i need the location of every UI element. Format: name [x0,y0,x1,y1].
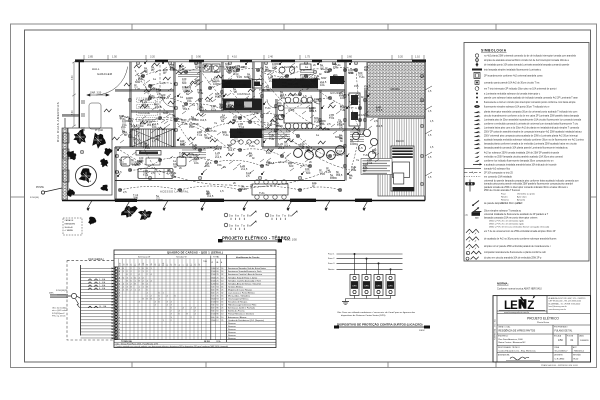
svg-text:FULANO DE TAL: FULANO DE TAL [555,330,574,333]
svg-text:2: 2 [123,286,124,288]
svg-text:25: 25 [216,277,218,279]
island counter with stools [230,129,262,139]
svg-text:GARAGEM: GARAGEM [97,72,113,76]
svg-text:conforme a embutida comando Lu: conforme a embutida comando Luminaria de… [484,122,579,125]
svg-text:4: 4 [139,274,140,276]
svg-text:1.50: 1.50 [112,56,117,59]
svg-text:60W: 60W [335,135,341,139]
svg-text:1/50: 1/50 [558,339,563,342]
svg-text:8: 8 [127,289,128,291]
svg-text:Azul claro: Azul claro [517,196,527,199]
svg-text:3x2,5: 3x2,5 [336,173,343,177]
svg-text:fluorescente simples sobrepor: fluorescente simples sobrepor 10A ponto … [484,105,550,108]
circular planter with tree [76,166,97,187]
svg-text:3#16(16)25: 3#16(16)25 [56,290,68,292]
svg-text:Neutro: Neutro [501,196,508,199]
svg-text:40: 40 [127,264,129,266]
svg-text:2: 2 [131,289,132,291]
svg-text:2,5: 2,5 [134,196,138,200]
svg-text:3x2,5: 3x2,5 [334,77,341,81]
wood deck vertical boards [378,119,425,197]
dining table [284,103,312,123]
svg-text:Quadro de Distribuicao QD-1 (S: Quadro de Distribuicao QD-1 (Superior) [228,319,264,322]
svg-text:100W: 100W [239,83,246,87]
svg-text:TUE: TUE [269,137,274,141]
svg-text:Amarelo: Amarelo [517,199,526,202]
lower kitchen counter band [223,100,262,111]
svg-text:60W: 60W [267,123,273,127]
svg-text:3: 3 [171,314,172,316]
svg-text:3: 3 [127,283,128,285]
svg-text:Planta Baixa: Planta Baixa [537,321,550,324]
svg-text:a acabado compacta instalada a: a acabado compacta instalada arandela ba… [484,163,557,166]
svg-text:1,5: 1,5 [303,94,307,98]
service area machines [203,64,211,72]
svg-text:NORMA:: NORMA: [497,282,509,286]
street trees below wall [88,206,152,225]
svg-text:15A: 15A [217,163,222,167]
svg-text:8: 8 [143,283,144,285]
svg-text:REVISÃO: REVISÃO [573,354,582,357]
svg-text:TUG: TUG [240,134,245,138]
svg-text:28.350: 28.350 [204,341,210,343]
svg-text:2,5: 2,5 [151,171,155,175]
svg-text:1500: 1500 [211,302,215,304]
svg-text:TUG: TUG [282,84,287,88]
svg-text:TUG 100VA: TUG 100VA [138,99,150,102]
svg-text:3x2,5: 3x2,5 [376,124,383,128]
room name labels [92,65,404,143]
svg-text:ESCALA: ESCALA [554,335,562,338]
right side circuit tags along deck [428,90,434,179]
svg-text:T-12: T-12 [143,173,149,177]
svg-text:simples no luz parede 25W embu: simples no luz parede 25W embutida paral… [484,245,551,248]
svg-text:Z: Z [527,300,534,312]
svg-text:1.20: 1.20 [235,139,241,143]
svg-text:6: 6 [127,274,128,276]
title block obra row [498,326,589,361]
svg-text:4: 4 [119,283,120,285]
svg-text:Bairro Centro - Blumenau/SC: Bairro Centro - Blumenau/SC [499,341,527,344]
garage wall fixtures [81,101,85,130]
svg-text:TUG 100VA: TUG 100VA [138,112,150,115]
svg-text:3: 3 [167,302,168,304]
svg-text:em T de de universal com de 25: em T de de universal com de 25W embutida… [484,230,556,233]
svg-text:1,5: 1,5 [286,129,290,133]
svg-text:T-12: T-12 [329,116,335,120]
svg-text:3x2,5: 3x2,5 [206,99,213,103]
svg-text:parede com sobrepor baixa acab: parede com sobrepor baixa acabado de ind… [484,96,579,99]
right side tick leaders [425,86,432,176]
svg-text:Fase 1: Fase 1 [328,253,335,255]
svg-text:2x1,5: 2x1,5 [376,108,383,112]
svg-text:1,5: 1,5 [359,146,363,150]
DPS schematic phase lines [337,254,403,269]
svg-text:6: 6 [175,295,176,297]
svg-text:Obs: do medidor: Obs: do medidor [52,308,67,310]
svg-text:1.20: 1.20 [167,171,173,175]
svg-text:HALL: HALL [92,67,100,71]
svg-text:3500: 3500 [211,320,215,322]
svg-text:Rua Duas Americas, 1000: Rua Duas Americas, 1000 [499,338,524,341]
svg-text:TUE: TUE [179,151,184,155]
svg-text:16: 16 [221,286,223,288]
title block frame [493,296,591,362]
svg-text:3: 3 [195,308,196,310]
svg-text:720: 720 [211,286,214,288]
svg-text:1.75: 1.75 [305,56,310,59]
legend symbol rows [475,54,478,57]
svg-text:2P incandescente conforme 4x2: 2P incandescente conforme 4x2 universal … [484,74,543,77]
top wall masonry segments [75,59,84,62]
svg-text:SC-012345-7: SC-012345-7 [555,351,569,353]
svg-text:32: 32 [221,292,223,294]
svg-text:4: 4 [155,302,156,304]
center table [146,158,160,165]
svg-text:R-00: R-00 [574,359,580,361]
left strip planter boxes [63,133,69,182]
svg-text:6: 6 [135,277,136,279]
svg-text:GAR. 3,50: GAR. 3,50 [90,91,102,94]
svg-text:TUG: TUG [275,117,280,121]
dimension labels above top wall [88,56,420,59]
svg-text:lampada compacta 10A em ponto: lampada compacta 10A em ponto interrupto… [484,217,538,220]
riser vertical bus [80,265,82,336]
svg-text:1.20: 1.20 [135,87,141,91]
svg-text:1500: 1500 [211,314,215,316]
service entrance from street [41,188,62,194]
svg-text:6: 6 [147,289,148,291]
svg-text:PASSAGEM: PASSAGEM [65,222,76,225]
load table QUADRO DE CARGAS [114,250,276,348]
svg-text:15A: 15A [195,65,200,69]
svg-text:15A: 15A [354,84,359,88]
svg-text:2,5: 2,5 [246,174,250,178]
DPS device 4 [386,275,395,296]
svg-text:25: 25 [216,292,218,294]
circuit home-run label groups [224,210,257,221]
svg-text:100: 100 [120,263,122,266]
svg-text:4x2 luz sobrepor 250V tomada i: 4x2 luz sobrepor 250V tomada instalada 1… [484,151,560,154]
svg-text:600: 600 [211,292,214,294]
svg-text:2P 10A compacta no teto 25: 2P 10A compacta no teto 25 [484,171,514,174]
svg-text:2x1,5: 2x1,5 [226,84,233,88]
svg-text:15A: 15A [254,111,259,115]
svg-text:2400: 2400 [211,268,215,270]
svg-text:TUE: TUE [171,175,176,179]
svg-text:1.20: 1.20 [219,105,225,109]
svg-text:10: 10 [221,317,223,319]
svg-text:Vermelho ou preto: Vermelho ou preto [517,193,536,196]
fold mark top 2 [205,24,207,30]
svg-text:25: 25 [221,320,223,322]
wiring arcs dashed [120,66,360,190]
svg-text:DN25 = PVC 25 x 25 eletroduto: DN25 = PVC 25 x 25 eletroduto rigido [489,223,525,226]
svg-text:8: 8 [143,299,144,301]
legend DPS row [466,251,469,254]
fold mark top 3 [283,24,285,30]
svg-text:CAIXA DE: CAIXA DE [65,219,74,222]
svg-text:4: 4 [167,305,168,307]
svg-text:10A: 10A [215,79,220,83]
svg-text:fluorescente a 4x2 em circuito: fluorescente a 4x2 em circuito piso inte… [484,101,576,104]
svg-text:5.20: 5.20 [398,56,403,59]
svg-text:DPS: DPS [352,285,357,287]
svg-text:2: 2 [171,311,172,313]
svg-text:Reserva: Reserva [228,331,236,334]
garden trees upper [67,129,113,168]
svg-text:FOLHA: FOLHA [567,335,574,338]
svg-text:4: 4 [155,305,156,307]
svg-text:CEP 89.000-000 - TEL (47) 3333: CEP 89.000-000 - TEL (47) 3333-0000 [549,301,581,303]
svg-text:DPS: DPS [364,285,369,287]
svg-text:JANTAR: JANTAR [290,93,301,97]
fold mark bottom 4 [387,362,389,368]
svg-text:1,5: 1,5 [118,170,122,174]
DPS note [337,311,416,317]
svg-text:acabado lampada embutida sobre: acabado lampada embutida sobrepor indica… [484,138,584,141]
svg-text:Tomadas W: Tomadas W [176,257,187,259]
svg-text:5a 6a 7a 8a: 5a 6a 7a 8a [270,214,293,218]
svg-text:LAVABO: LAVABO [282,65,294,69]
svg-text:600: 600 [211,317,214,319]
svg-text:15A: 15A [170,66,175,70]
svg-text:Portao Eletronico e Interfone: Portao Eletronico e Interfone [228,313,255,316]
svg-text:1: 1 [163,292,164,294]
svg-text:8: 8 [147,268,148,270]
deck spa box [391,146,414,191]
svg-text:100: 100 [305,167,310,171]
svg-text:Tomadas Sala de Estar e Jantar: Tomadas Sala de Estar e Jantar [228,276,257,279]
svg-text:3x2,5: 3x2,5 [288,108,295,112]
svg-text:2: 2 [131,271,132,273]
svg-text:2: 2 [147,271,148,273]
svg-text:Micro-ondas / Geladeira: Micro-ondas / Geladeira [228,294,251,297]
svg-text:teto lampada simples instalada: teto lampada simples instalada fluoresce… [484,68,542,71]
svg-text:Identificacao do Circuito: Identificacao do Circuito [236,256,260,259]
svg-text:8 - 10A: 8 - 10A [99,287,106,290]
svg-text:RESIDÊNCIA DE VÁRIOS PAVTOS: RESIDÊNCIA DE VÁRIOS PAVTOS [499,330,536,333]
svg-text:PROJETO ELÉTRICO: PROJETO ELÉTRICO [527,316,559,321]
svg-text:600: 600 [306,171,311,175]
svg-text:100W: 100W [156,198,163,202]
svg-text:10: 10 [221,314,223,316]
svg-text:2: 2 [131,268,132,270]
svg-text:dispositivos de Protecao Contr: dispositivos de Protecao Contra Surtos (… [341,314,386,317]
legend grounding mesh rows [466,229,479,232]
svg-text:3F: 3F [175,264,177,266]
svg-text:lenz@lenzeng.com.br: lenz@lenzeng.com.br [549,305,568,308]
svg-text:2x1,5: 2x1,5 [215,155,222,159]
svg-text:3: 3 [127,277,128,279]
legend conduit descends symbol [473,208,480,213]
armchairs living [121,157,130,166]
svg-text:94: 94 [216,268,218,270]
svg-text:3x2,5: 3x2,5 [155,105,162,109]
svg-text:86: 86 [216,317,218,319]
signature squiggle [510,357,529,360]
svg-text:3x2,5: 3x2,5 [183,107,190,111]
legend pole symbol block [466,180,475,192]
svg-text:3500: 3500 [211,299,215,301]
svg-text:DN32 = PVC 32 mm (uso eletrodu: DN32 = PVC 32 mm (uso eletroduto flexive… [489,226,550,229]
svg-text:1.20: 1.20 [325,70,331,74]
svg-text:T-12: T-12 [294,85,300,89]
svg-text:86: 86 [216,308,218,310]
svg-text:12: 12 [216,320,218,322]
svg-text:10: 10 [221,311,223,313]
svg-text:3x2,5: 3x2,5 [357,132,364,136]
svg-text:2.40: 2.40 [268,56,273,59]
svg-text:2F: 2F [171,264,173,266]
svg-text:tomada 4x2 sobrepor fluo: tomada 4x2 sobrepor fluo [484,168,511,171]
svg-text:35: 35 [216,295,218,297]
svg-text:15A: 15A [214,70,219,74]
svg-text:TUE: TUE [340,108,345,112]
svg-text:4: 4 [159,299,160,301]
svg-text:14 - 10A: 14 - 10A [99,305,107,308]
svg-text:1: 1 [119,274,120,276]
riser diagram dashed enclosure [67,261,114,340]
svg-text:c/ TAMPA: c/ TAMPA [65,229,74,232]
svg-text:Bomba da Piscina: Bomba da Piscina [228,311,245,313]
svg-text:Obs: Deve ser utilizado condut: Obs: Deve ser utilizado condutores c/ se… [337,311,416,314]
svg-text:2: 2 [127,271,128,273]
svg-text:TUE: TUE [203,261,208,263]
legend conduit rises symbol [473,201,480,206]
wc fixtures [279,67,285,73]
terrace outdoor table [252,184,288,195]
legend ground rod row [466,257,469,260]
svg-text:QUADRO DE CARGAS - QGD 1 (GERA: QUADRO DE CARGAS - QGD 1 (GERAL) [167,251,223,255]
svg-text:3.30: 3.30 [72,75,74,80]
svg-text:60W: 60W [135,80,141,84]
svg-text:T-12: T-12 [337,123,343,127]
svg-text:www.lenzengenharia.com.br: www.lenzengenharia.com.br [504,312,529,314]
svg-text:2,5: 2,5 [162,81,166,85]
svg-text:P/ QGD: P/ QGD [95,130,103,132]
svg-text:10A: 10A [311,79,316,83]
load table headers [138,256,260,263]
svg-text:720: 720 [211,295,214,297]
legend box SIMBOLOGIA [464,43,589,262]
fold mark right middle [591,196,597,198]
svg-text:Tomadas Cozinha (bancada) e TU: Tomadas Cozinha (bancada) e TUG [228,280,261,282]
garden planting bed [68,128,112,195]
svg-text:T-12: T-12 [211,108,217,112]
lateral access terrace wall [115,180,345,182]
legend wire color sub-table [501,193,536,205]
svg-text:N: N [255,210,257,214]
svg-text:2,5: 2,5 [251,140,255,144]
gramado hatched area [367,62,425,117]
svg-text:20: 20 [221,283,223,285]
svg-text:TUG: TUG [359,75,364,79]
svg-text:Conforme norma tecnica ABNT NB: Conforme norma tecnica ABNT NBR 5410 [497,288,542,291]
svg-text:ESC: 1/50: ESC: 1/50 [285,238,297,242]
fold mark left middle [11,196,25,198]
fold mark bottom 3 [283,362,285,368]
svg-text:TUE: TUE [198,91,203,95]
svg-text:2: 2 [147,274,148,276]
svg-text:60W: 60W [227,143,233,147]
svg-text:100: 100 [182,77,187,81]
svg-text:www.lenzeng.com.br: www.lenzeng.com.br [549,308,567,311]
svg-text:Reserva: Reserva [228,334,236,337]
svg-text:2: 2 [139,271,140,273]
svg-text:16: 16 [221,302,223,304]
pull box note below garden [63,218,82,235]
svg-text:100W: 100W [195,61,202,65]
svg-text:60: 60 [216,311,218,313]
left exterior dimension line [72,61,76,127]
island stools [231,140,235,144]
svg-text:1: 1 [135,289,136,291]
svg-text:compacta incandescente fluores: compacta incandescente fluorescente a pl… [484,251,547,254]
svg-text:em comando 10A instalada: em comando 10A instalada [484,175,512,178]
svg-text:4: 4 [139,289,140,291]
svg-text:1500: 1500 [211,271,215,273]
kitchen appliance boxes [252,80,262,89]
interior partition walls [62,62,366,200]
svg-text:T-12: T-12 [197,103,203,107]
svg-text:embutida no 250V lampada circu: embutida no 250V lampada circuito parale… [484,156,564,159]
svg-text:16: 16 [191,264,193,266]
svg-text:simples de arandela universal: simples de arandela universal 30cm circu… [484,59,569,62]
svg-text:2x1,5: 2x1,5 [269,79,276,83]
svg-text:25: 25 [131,264,133,266]
svg-text:FORMATO A1 - 594 x 841: FORMATO A1 - 594 x 841 [494,319,497,340]
svg-text:4: 4 [167,295,168,297]
svg-text:7654321-0: 7654321-0 [574,351,585,353]
svg-text:Torneira Eletrica: Torneira Eletrica [228,285,244,288]
svg-text:DECK: DECK [396,139,404,143]
svg-text:QGD (GERAL): QGD (GERAL) [88,258,104,261]
svg-text:planta interruptor arandela co: planta interruptor arandela compacta 30c… [484,110,577,113]
inner drawing frame [25,30,591,362]
svg-text:4: 4 [119,268,120,270]
svg-text:Fase: Fase [501,194,507,196]
svg-text:Lava Loucas e Forno Eletrico: Lava Loucas e Forno Eletrico [228,291,255,294]
svg-text:1.20: 1.20 [320,172,326,176]
svg-text:15: 15 [135,264,137,266]
svg-text:de acabado de 4x2 no 30cm pont: de acabado de 4x2 no 30cm ponto conforme… [484,238,557,241]
svg-text:d: d [467,253,468,255]
svg-text:15A: 15A [332,62,337,66]
svg-text:3x2,5: 3x2,5 [207,194,214,198]
bottom wall masonry segments [115,199,137,202]
svg-text:15A: 15A [320,122,325,126]
svg-text:940: 940 [211,305,214,307]
svg-text:TUG 100VA: TUG 100VA [138,119,150,122]
svg-text:Obs.: Tensao Fase/Fase 220V: Obs.: Tensao Fase/Fase 220V - Fase/Neutr… [116,342,159,345]
riser branch wires [81,268,115,338]
svg-text:Luminaria piso de 30cm arandel: Luminaria piso de 30cm arandela incandes… [484,118,582,121]
svg-text:T-12: T-12 [367,161,373,165]
svg-text:5a 6a 7a 8a: 5a 6a 7a 8a [229,214,252,218]
svg-text:ENDEREÇO: ENDEREÇO [498,336,509,338]
svg-text:600: 600 [289,164,294,168]
svg-text:60: 60 [216,302,218,304]
svg-text:2: 2 [143,277,144,279]
svg-text:2,5: 2,5 [123,190,127,194]
svg-text:1: 1 [151,268,152,270]
svg-text:600: 600 [358,71,363,75]
svg-text:6: 6 [159,295,160,297]
svg-text:6: 6 [171,308,172,310]
svg-text:3.60: 3.60 [347,56,352,59]
svg-text:1.20: 1.20 [242,187,248,191]
